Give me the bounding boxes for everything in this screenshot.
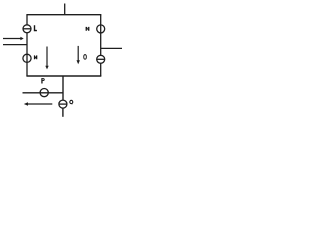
arrow middle down shaft bbox=[46, 47, 48, 67]
arrow right down shaft bbox=[77, 46, 79, 61]
wire top rail bbox=[26, 14, 101, 16]
wire below Q bbox=[62, 108, 64, 117]
label L bbox=[34, 25, 37, 31]
arrow input 1 shaft bbox=[3, 38, 21, 40]
wire left column lower bbox=[26, 33, 28, 76]
wire top stub bbox=[64, 4, 66, 15]
arrow middle down head bbox=[45, 66, 48, 70]
wire right column upper bbox=[100, 15, 102, 56]
voltage source P (circle) bbox=[40, 89, 48, 97]
current source right bar bbox=[97, 58, 105, 60]
wire right column lower bbox=[100, 63, 102, 76]
wire bottom rail bbox=[26, 75, 101, 77]
wire input line 2 bbox=[3, 44, 27, 46]
current source Q (circle) bbox=[59, 100, 67, 108]
arrow bottom-left head bbox=[24, 102, 28, 105]
voltage source M (circle) bbox=[23, 54, 31, 62]
wire middle drop bbox=[62, 76, 64, 100]
wire right branch bbox=[101, 47, 122, 49]
wire left column upper bbox=[26, 15, 28, 25]
label N bbox=[86, 27, 90, 31]
wire bottom branch bbox=[23, 92, 64, 94]
label P bbox=[41, 78, 44, 83]
current source right (circle) bbox=[97, 55, 105, 63]
current source L (circle) bbox=[23, 25, 31, 33]
voltage source N (circle) bbox=[97, 25, 105, 33]
label Q bbox=[70, 100, 73, 104]
label M bbox=[34, 55, 37, 59]
current source L bar bbox=[23, 28, 31, 30]
current source Q bar bbox=[59, 103, 67, 105]
label O (digit zero) bbox=[84, 55, 87, 60]
arrow right down head bbox=[77, 60, 80, 64]
arrow input 1 head bbox=[20, 37, 23, 40]
arrow bottom-left shaft bbox=[27, 103, 52, 105]
